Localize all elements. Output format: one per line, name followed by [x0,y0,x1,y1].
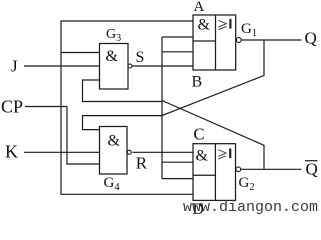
svg-text:R: R [136,154,148,173]
svg-text:B: B [192,74,203,91]
svg-text:Q: Q [305,29,317,48]
wire S output line to B input [132,65,193,67]
NAND gate G3 box [100,44,129,90]
wire B input1 stub [162,51,193,53]
bubble G1 output [236,38,241,43]
svg-text:&: & [106,48,119,65]
svg-text:&: & [196,148,209,165]
wire CP input line [25,106,67,108]
wire J input line [24,65,100,67]
wire A input2 stub [162,36,193,38]
svg-text:&: & [108,133,121,150]
wire middle vertical bus x=162 [161,37,163,179]
wire Q feedback branch down then diagonal to G4 net [162,40,264,116]
bubble G2 output [236,167,241,172]
svg-text:&: & [198,17,211,34]
wire K input line [24,151,100,153]
svg-text:S: S [136,49,145,66]
wire G4 input1 bent link to node Q-net [83,116,163,130]
wire Qbar output line [241,168,302,170]
wire C input2 stub [162,161,193,163]
svg-text:CP: CP [1,97,23,117]
wire G3 input1 stub from left vertical [61,52,100,54]
symbol >=1 of C/D OR section [218,150,226,159]
svg-text:J: J [11,57,18,76]
svg-text:A: A [194,0,205,15]
wire Q output line [241,39,301,41]
AOI gate C/D box [193,144,236,201]
bubble G3 output [128,64,132,68]
svg-text:D: D [193,201,204,218]
wire CP branch down to G4 input3 [67,107,100,165]
svg-text:Q: Q [306,160,318,179]
AOI gate A/B box [193,15,236,70]
wire Qbar feedback diagonal then down to Qbar line [162,101,264,170]
svg-text:C: C [194,125,205,144]
NAND gate G4 box [100,127,128,175]
wire D input1 stub [162,178,193,180]
symbol >=1 of A/B OR section [219,20,227,29]
wire G3 input3 bent link to node Qbar-net [83,80,163,102]
wire R output line to C input [133,151,194,153]
bubble G4 output [127,150,131,154]
wire CP feedback loop left vertical with top branch to A input and bottom branch to D input [61,21,193,194]
svg-text:K: K [5,142,18,162]
